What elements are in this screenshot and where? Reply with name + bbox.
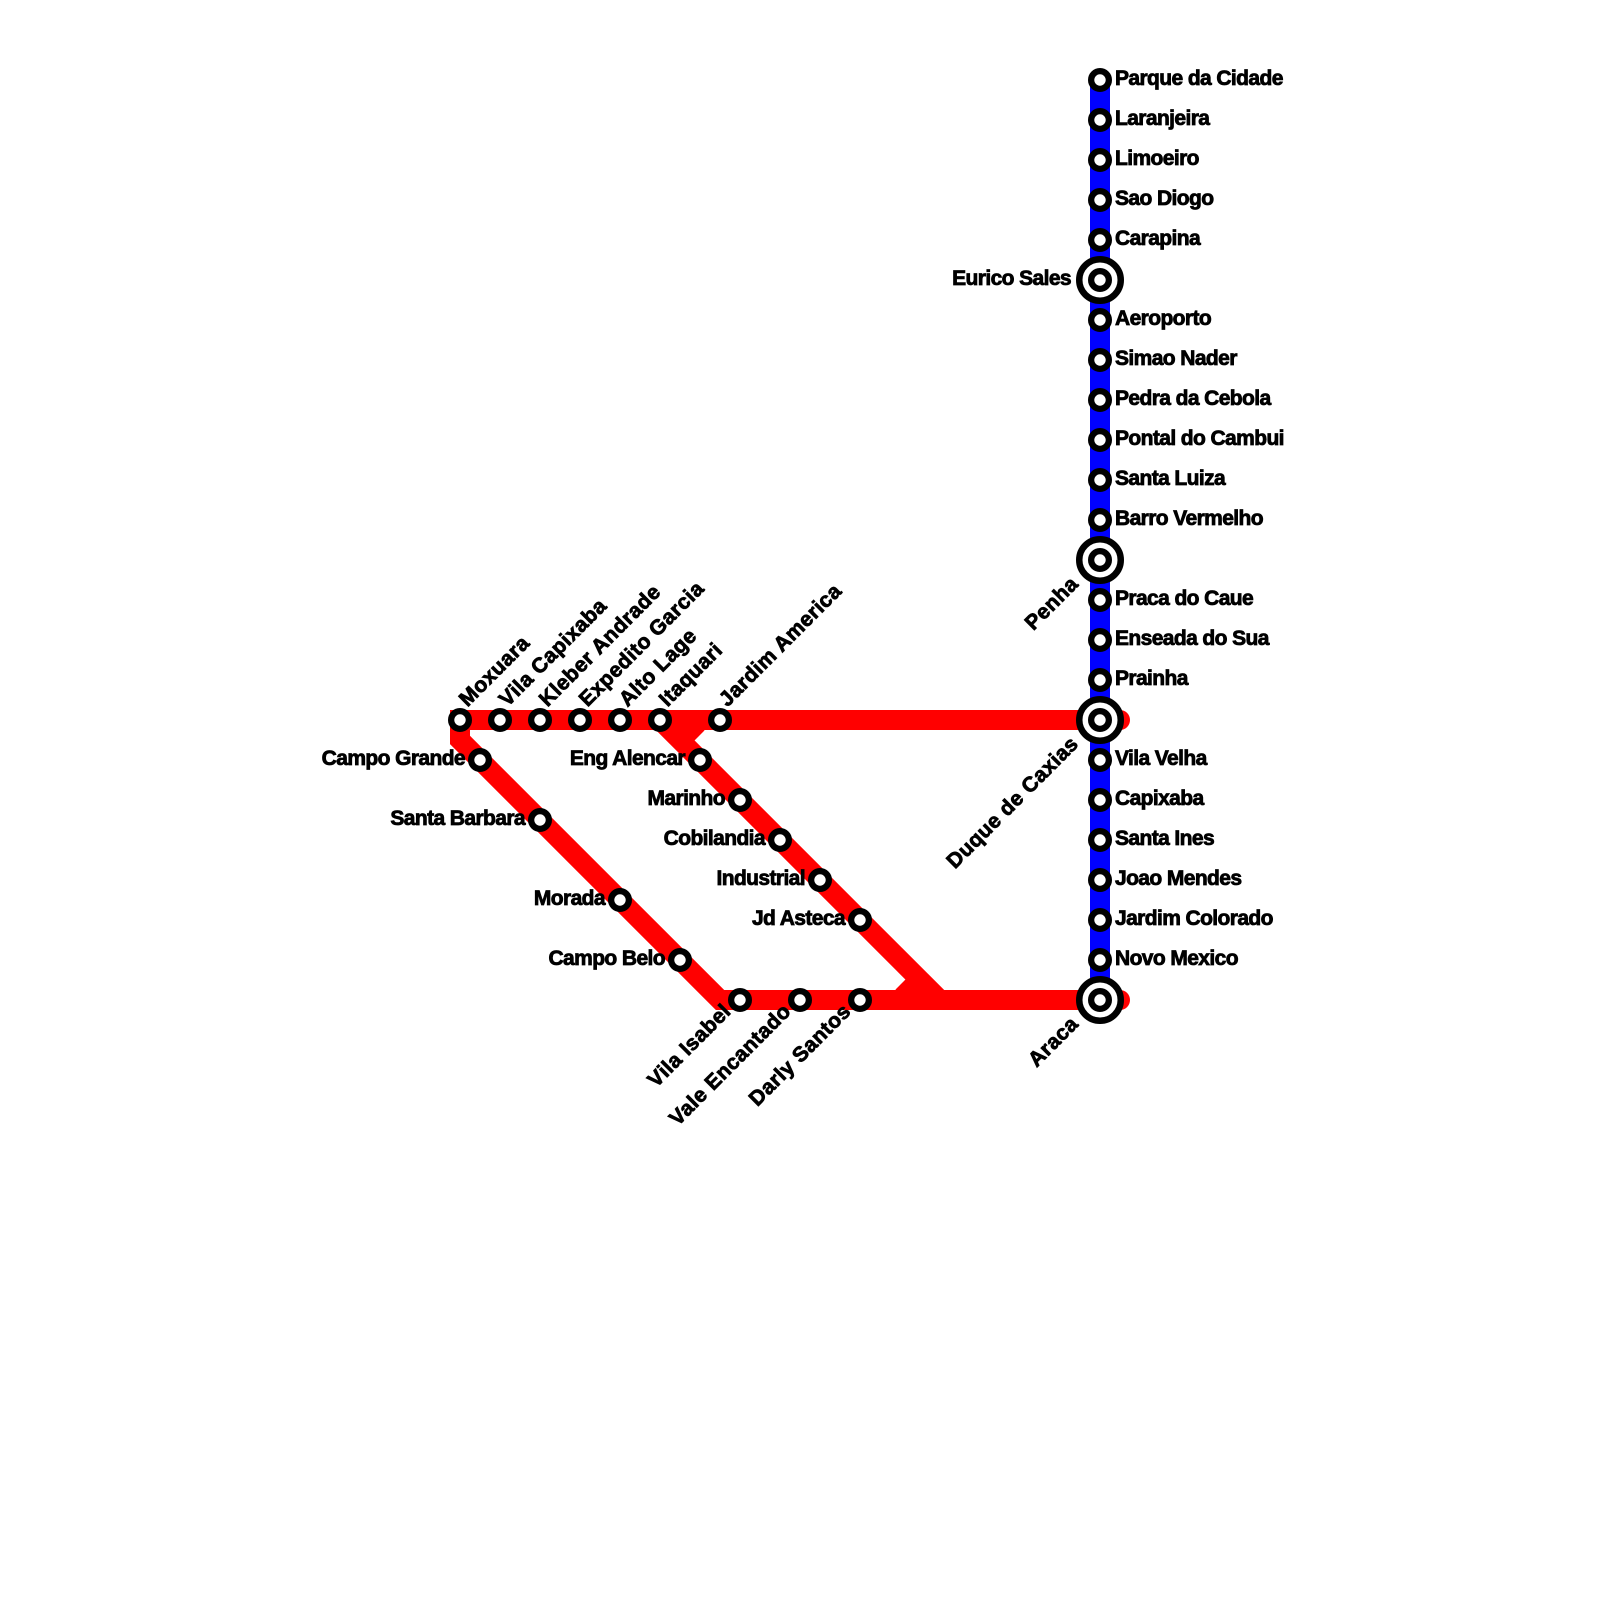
- node station Itaquari: [651, 711, 669, 729]
- node station Santa Luiza: [1091, 471, 1109, 489]
- svg-text:Sao Diogo: Sao Diogo: [1115, 187, 1213, 210]
- node station Simao Nader: [1091, 351, 1109, 369]
- svg-text:Pedra da Cebola: Pedra da Cebola: [1115, 387, 1271, 410]
- svg-text:Eurico Sales: Eurico Sales: [952, 267, 1071, 290]
- node station Vila Capixaba: [491, 711, 509, 729]
- svg-text:Novo Mexico: Novo Mexico: [1115, 947, 1238, 970]
- svg-text:Marinho: Marinho: [648, 787, 725, 810]
- node interchange Penha: [1079, 539, 1121, 581]
- wire blue line vertical: [1090, 80, 1110, 1000]
- svg-text:Parque da Cidade: Parque da Cidade: [1115, 67, 1283, 90]
- svg-text:Pontal do Cambui: Pontal do Cambui: [1115, 427, 1284, 450]
- wire red line main path: top horizontal, corner at Moxuara, diagonal 1, bottom horizontal: [460, 720, 1120, 1000]
- node station Santa Barbara: [531, 811, 549, 829]
- node station Moxuara: [451, 711, 469, 729]
- wire red branch connector stub at top junction: [680, 720, 698, 738]
- node station Pedra da Cebola: [1091, 391, 1109, 409]
- node station Jardim Colorado: [1091, 911, 1109, 929]
- svg-text:Morada: Morada: [534, 887, 606, 910]
- svg-text:Laranjeira: Laranjeira: [1115, 107, 1210, 130]
- svg-text:Industrial: Industrial: [716, 867, 805, 890]
- svg-text:Santa Luiza: Santa Luiza: [1115, 467, 1226, 490]
- node station Campo Grande: [471, 751, 489, 769]
- svg-text:Simao Nader: Simao Nader: [1115, 347, 1237, 370]
- node station Eng Alencar: [691, 751, 709, 769]
- node station Barro Vermelho: [1091, 511, 1109, 529]
- svg-text:Jardim Colorado: Jardim Colorado: [1115, 907, 1273, 930]
- node interchange Duque de Caxias: [1079, 699, 1121, 741]
- svg-text:Barro Vermelho: Barro Vermelho: [1115, 507, 1263, 530]
- node station Vila Isabel: [731, 991, 749, 1009]
- node station Laranjeira: [1091, 111, 1109, 129]
- wire red line branch diagonal 2 (Itaquari to bottom junction): [660, 720, 940, 1000]
- node station Cobilandia: [771, 831, 789, 849]
- node station Campo Belo: [671, 951, 689, 969]
- svg-text:Santa Barbara: Santa Barbara: [390, 807, 526, 830]
- node station Parque da Cidade: [1091, 71, 1109, 89]
- node station Morada: [611, 891, 629, 909]
- node station Darly Santos: [851, 991, 869, 1009]
- node station Santa Ines: [1091, 831, 1109, 849]
- node station Aeroporto: [1091, 311, 1109, 329]
- svg-text:Jd Asteca: Jd Asteca: [752, 907, 846, 930]
- svg-text:Campo Belo: Campo Belo: [548, 947, 665, 970]
- svg-text:Eng Alencar: Eng Alencar: [570, 747, 686, 770]
- svg-text:Aeroporto: Aeroporto: [1115, 307, 1211, 330]
- node station Vale Encantado: [791, 991, 809, 1009]
- svg-text:Campo Grande: Campo Grande: [322, 747, 465, 770]
- node station Pontal do Cambui: [1091, 431, 1109, 449]
- svg-text:Praca do Caue: Praca do Caue: [1115, 587, 1253, 610]
- wire red branch connector stub at bottom junction: [903, 983, 921, 1001]
- svg-text:Vila Velha: Vila Velha: [1115, 747, 1208, 770]
- node station Expedito Garcia: [571, 711, 589, 729]
- svg-text:Joao Mendes: Joao Mendes: [1115, 867, 1241, 890]
- svg-text:Carapina: Carapina: [1115, 227, 1201, 250]
- svg-text:Santa Ines: Santa Ines: [1115, 827, 1214, 850]
- node station Industrial: [811, 871, 829, 889]
- node station Praca do Caue: [1091, 591, 1109, 609]
- node interchange Araca: [1079, 979, 1121, 1021]
- svg-text:Enseada do Sua: Enseada do Sua: [1115, 627, 1270, 650]
- node station Novo Mexico: [1091, 951, 1109, 969]
- node station Joao Mendes: [1091, 871, 1109, 889]
- node station Carapina: [1091, 231, 1109, 249]
- node station Prainha: [1091, 671, 1109, 689]
- svg-text:Prainha: Prainha: [1115, 667, 1189, 690]
- svg-text:Capixaba: Capixaba: [1115, 787, 1204, 810]
- node station Vila Velha: [1091, 751, 1109, 769]
- node station Marinho: [731, 791, 749, 809]
- node interchange Eurico Sales: [1079, 259, 1121, 301]
- svg-text:Limoeiro: Limoeiro: [1115, 147, 1199, 170]
- node station Jd Asteca: [851, 911, 869, 929]
- svg-text:Cobilandia: Cobilandia: [664, 827, 766, 850]
- node station Alto Lage: [611, 711, 629, 729]
- node station Jardim America: [711, 711, 729, 729]
- node station Enseada do Sua: [1091, 631, 1109, 649]
- node station Kleber Andrade: [531, 711, 549, 729]
- node station Capixaba: [1091, 791, 1109, 809]
- node station Sao Diogo: [1091, 191, 1109, 209]
- node station Limoeiro: [1091, 151, 1109, 169]
